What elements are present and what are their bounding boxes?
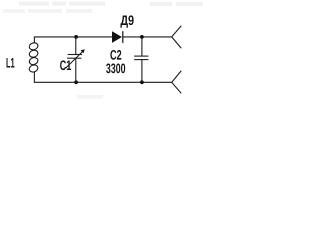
diode D9 (Д9) [112,31,123,43]
terminal bottom right [172,71,181,93]
arrowhead of C1 arrow [81,49,85,53]
node: junction C1 bottom [74,80,78,84]
node: junction C2 bottom [140,80,144,84]
label C2 [110,50,121,60]
inductor L1 [28,42,38,73]
wire C1 branch top [75,37,77,54]
capacitor C1 (variable) [66,51,83,68]
wire C1 branch bottom [75,58,77,82]
label D9 [120,15,133,27]
label 3300 [106,63,125,73]
capacitor C2 [135,56,148,60]
wire C2 branch top [141,37,143,56]
watermark smudge top row 2 [3,9,92,13]
node: junction C1 top [74,35,78,39]
node: junction C2 top [140,35,144,39]
label L1 [7,58,15,67]
terminal top right [172,26,181,48]
label C1 [60,60,71,70]
watermark smudge bottom center [77,95,103,99]
wire top left: L1 top to diode anode [34,37,112,43]
wire bottom: L1 bottom to bottom terminal [34,72,171,82]
wire C2 branch bottom [141,60,143,83]
wire top right: diode cathode to top terminal [123,36,172,38]
watermark smudge top row 1 [19,2,203,7]
